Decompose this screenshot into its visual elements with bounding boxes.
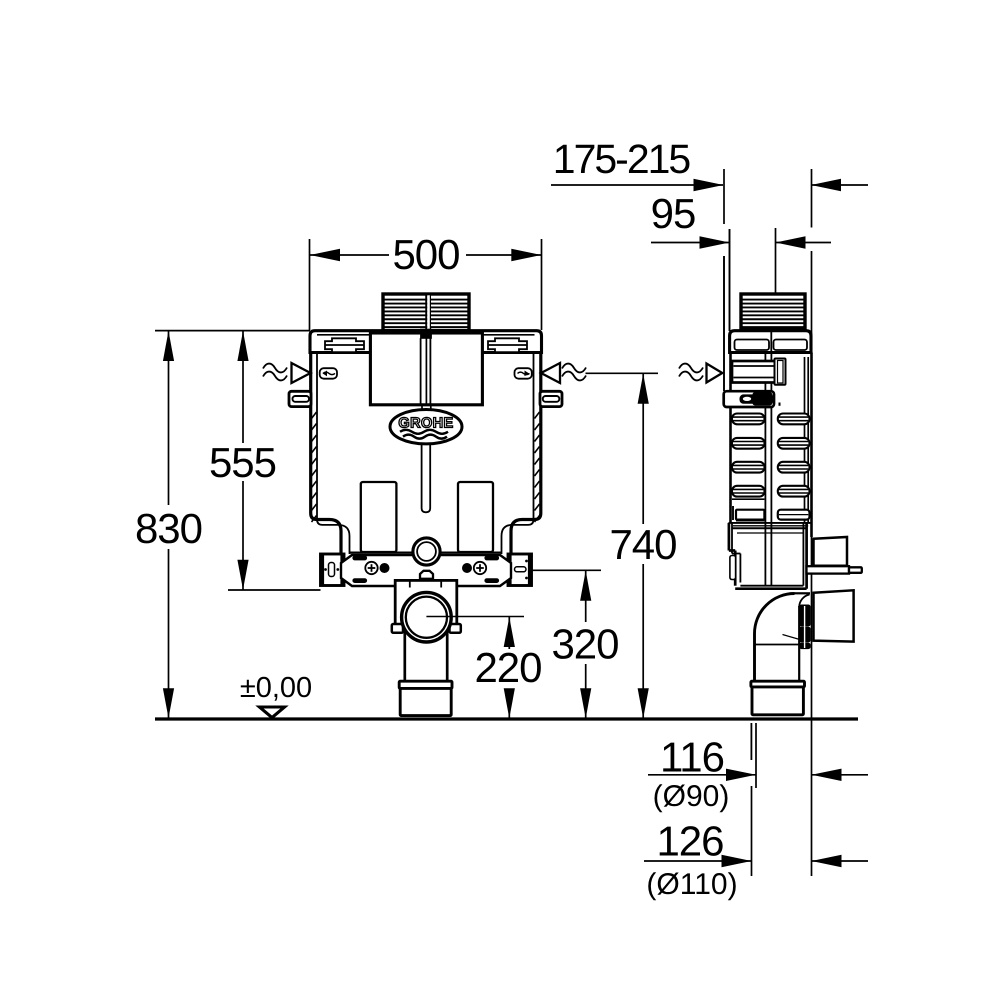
front view: inlet clip left <box>320 368 337 379</box>
side view: pipe coupling body <box>752 687 803 715</box>
front view: tank inner bottom line <box>350 551 502 553</box>
front view: outlet box <box>395 580 457 625</box>
svg-text:175-215: 175-215 <box>553 136 691 182</box>
side view: water flow arrow <box>679 364 722 383</box>
svg-text:555: 555 <box>209 439 276 486</box>
svg-text:126: 126 <box>656 818 723 865</box>
dimension 116 <box>648 723 868 813</box>
side view: pipe below ground <box>750 723 752 760</box>
side view: bottom rib bar left <box>732 499 764 521</box>
front view: right leg channel <box>458 482 493 552</box>
front view: screw dot left <box>380 563 390 573</box>
side view: inlet connector <box>812 537 847 566</box>
front view: cover slot right <box>488 338 527 352</box>
side view: bottom box <box>729 523 807 589</box>
svg-text:740: 740 <box>609 521 676 568</box>
dimension 95 <box>651 190 831 331</box>
side view: tank cover <box>730 331 811 353</box>
dimension 320 <box>532 570 619 718</box>
side view: support plate <box>807 566 862 573</box>
front view: pipe coupling body <box>400 688 451 715</box>
front view: left leg channel <box>361 482 397 552</box>
side view: front face line <box>729 229 731 331</box>
front view: tube stub above logo <box>422 405 431 410</box>
svg-text:(Ø90): (Ø90) <box>653 780 730 813</box>
side view: clamp leader line <box>783 635 802 641</box>
dimension 126 <box>644 786 868 901</box>
front view: cover slot left <box>325 338 364 352</box>
front view: tank cover <box>310 331 542 353</box>
svg-text:116: 116 <box>660 734 724 781</box>
side view: inlet valve box <box>732 359 786 385</box>
top reference line <box>155 330 310 332</box>
side view: bottom rib bar right <box>778 510 810 520</box>
side view: outlet elbow <box>755 593 811 681</box>
front view: access shaft <box>370 333 482 405</box>
front view: rail slot bottom-left <box>353 579 367 583</box>
front view: inlet clip right <box>515 368 532 379</box>
side view: clamp bracket <box>724 391 780 407</box>
front view: screw phillips left <box>365 562 377 574</box>
front view: screw dot right <box>462 563 472 573</box>
side view: body outline <box>731 353 812 538</box>
front view: mounting rail right end cap <box>508 554 532 586</box>
front view: flush bend collar <box>413 538 440 565</box>
front view: screw phillips right <box>474 562 486 574</box>
dimension 175-215 <box>551 136 868 391</box>
front view: outlet box ear left <box>392 624 403 633</box>
front view: wall hatch ticks left <box>312 412 317 522</box>
svg-text:(Ø110): (Ø110) <box>646 868 737 901</box>
front view: flush tube top cap <box>421 329 432 338</box>
side view: elbow clamp segments <box>800 605 811 649</box>
svg-text:830: 830 <box>135 505 202 552</box>
front view: tank inner wall <box>317 353 534 555</box>
svg-text:320: 320 <box>551 621 618 668</box>
dimension 555 <box>209 331 321 590</box>
front view: protection box (hatched) <box>383 294 469 331</box>
svg-text:±0,00: ±0,00 <box>240 672 312 704</box>
front view: flush tube upper <box>421 338 431 405</box>
svg-text:500: 500 <box>392 231 459 278</box>
side view: body bottom divider <box>729 522 812 524</box>
side view: ribs <box>732 414 810 497</box>
front view: left mounting tab <box>289 391 311 406</box>
front view: right mounting tab <box>540 391 562 406</box>
front view: water flow arrow right <box>541 363 586 383</box>
extension line 220 from outlet centre <box>426 616 524 618</box>
front view: mounting rail left end cap <box>321 554 345 586</box>
wall line front face <box>811 169 813 876</box>
front view: rail slot top-right <box>485 556 499 560</box>
front view: flush tube lower <box>422 444 431 512</box>
front view: rail slot top-left <box>353 556 367 560</box>
front view: outlet box ear right <box>450 624 461 633</box>
level mark plus-minus 0,00 <box>240 672 312 718</box>
svg-text:220: 220 <box>474 644 541 691</box>
dimension 500 <box>310 231 542 330</box>
dimension 220 <box>474 617 541 718</box>
side view: wall line finished surface <box>723 256 725 391</box>
front view: water flow arrow left <box>263 363 311 383</box>
front view: outlet circle <box>402 592 452 642</box>
ground line <box>155 717 858 720</box>
side view: protection box (hatched) <box>741 294 805 330</box>
front view: outlet pipe <box>405 630 447 682</box>
side view: centre tube <box>765 353 771 587</box>
front view: GROHE logo <box>390 410 462 444</box>
side view: outlet connector <box>814 590 854 641</box>
dimension 830 <box>135 331 202 718</box>
dimension 740 <box>586 373 677 718</box>
front view: mounting rail bar <box>341 555 511 586</box>
front view: tank outer wall <box>311 353 541 556</box>
side view: pipe coupling ridge <box>751 681 805 687</box>
front view: pipe coupling ridge <box>399 681 452 688</box>
front view: outlet socket tab <box>420 571 433 579</box>
svg-text:95: 95 <box>651 190 696 237</box>
front view: wall hatch ticks right <box>535 412 540 522</box>
front view: rail slot bottom-right <box>485 579 499 583</box>
